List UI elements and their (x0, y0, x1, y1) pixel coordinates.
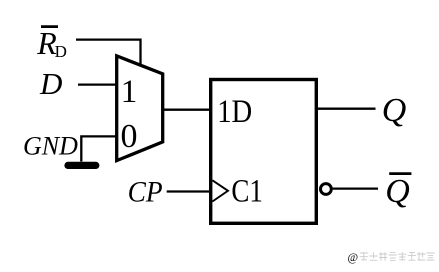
svg-text:D: D (39, 66, 62, 101)
watermark (348, 252, 435, 264)
svg-text:@: @ (348, 252, 359, 264)
inverter bubble on Qbar (321, 184, 332, 195)
svg-text:C1: C1 (231, 174, 263, 210)
wire GND to mux input 0 (81, 136, 117, 161)
wire mux output to 1D (164, 109, 209, 111)
wire Q output (318, 108, 376, 110)
svg-text:1D: 1D (217, 94, 252, 130)
clock triangle on C1 (212, 180, 228, 201)
label RD-bar (async reset input) (36, 25, 67, 61)
wire CP to C1 (167, 190, 209, 192)
wire D to mux input 1 (78, 83, 117, 85)
label Qbar (385, 173, 411, 210)
mux U1 (2:1 multiplexer trapezoid) (117, 56, 163, 161)
svg-text:GND: GND (23, 131, 78, 160)
wire RD to mux select (76, 40, 141, 67)
svg-text:CP: CP (128, 175, 163, 208)
ground bar (64, 162, 99, 169)
svg-text:Q: Q (385, 173, 410, 210)
svg-text:Q: Q (382, 92, 407, 129)
wire Qbar output (333, 187, 378, 189)
flip-flop U2 (gated D latch box) (211, 80, 317, 224)
svg-text:1: 1 (121, 74, 138, 110)
svg-text:0: 0 (121, 118, 138, 155)
svg-text:D: D (55, 42, 67, 61)
